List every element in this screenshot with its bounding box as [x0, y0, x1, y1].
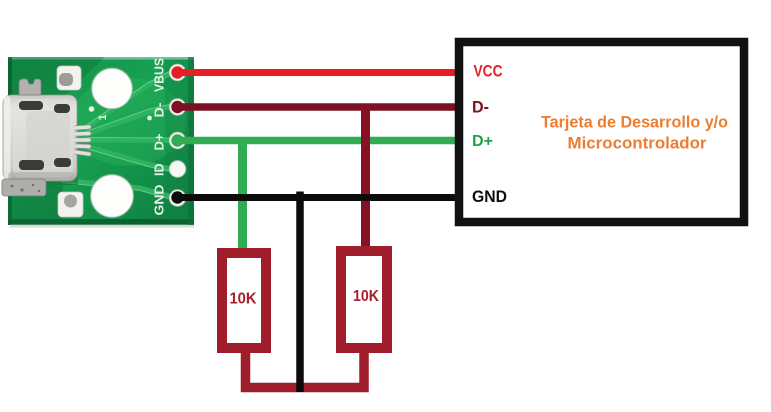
svg-text:10K: 10K — [230, 291, 258, 308]
wire D- branch vertical to R2 — [361, 104, 370, 252]
wire D+ horizontal (green) — [171, 134, 461, 146]
pin hole VBUS — [169, 64, 185, 80]
svg-text:10K: 10K — [353, 288, 380, 305]
svg-text:1: 1 — [97, 114, 109, 120]
micro USB connector shield — [3, 95, 78, 185]
wire D+ branch vertical to R1 — [238, 141, 247, 255]
microcontroller box U1 — [459, 42, 744, 222]
wire GND vertical (black) — [296, 192, 304, 393]
svg-text:D+: D+ — [153, 134, 167, 151]
resistor R2 10K — [341, 251, 387, 348]
pin hole D- — [169, 99, 185, 115]
connector latch slots — [19, 101, 71, 170]
micro USB breakout PCB board — [8, 57, 194, 228]
svg-text:ID: ID — [153, 164, 167, 177]
svg-text:VBUS: VBUS — [153, 58, 167, 92]
via dot B — [147, 116, 152, 121]
svg-text:Tarjeta de Desarrollo y/o: Tarjeta de Desarrollo y/o — [541, 113, 728, 132]
PCB copper traces — [62, 74, 169, 196]
wire VBUS to VCC (red) — [171, 66, 461, 78]
shield solder pad bottom — [58, 192, 83, 217]
svg-text:Microcontrolador: Microcontrolador — [568, 134, 707, 153]
wire D- horizontal (dark red) — [171, 101, 461, 113]
svg-text:GND: GND — [472, 188, 507, 206]
pin hole GND — [169, 190, 185, 206]
svg-text:D-: D- — [472, 99, 489, 117]
svg-text:GND: GND — [153, 185, 167, 216]
ground bottom loop wire (dark red) — [246, 351, 365, 388]
resistor R1 10K — [222, 253, 266, 348]
shield solder pad top — [57, 66, 81, 90]
svg-text:VCC: VCC — [474, 63, 503, 81]
pin hole D+ — [169, 132, 185, 148]
pin hole ID — [169, 161, 185, 177]
connector top mounting tab — [19, 79, 41, 95]
via dot A — [89, 106, 95, 112]
connector bottom mounting tab — [2, 179, 46, 196]
connector pins — [75, 127, 89, 154]
svg-text:D-: D- — [153, 103, 167, 118]
svg-text:D+: D+ — [472, 133, 493, 150]
mounting hole top — [92, 68, 133, 109]
wire GND horizontal (black) — [171, 191, 461, 203]
mounting hole bottom — [91, 175, 134, 218]
